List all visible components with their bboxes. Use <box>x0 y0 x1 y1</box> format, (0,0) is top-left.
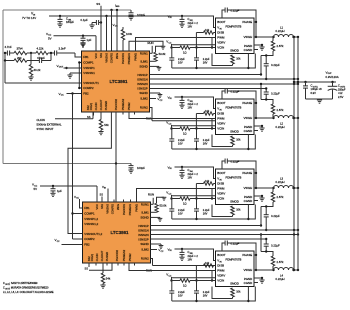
svg-text:FREQ: FREQ <box>89 103 93 110</box>
node VCC ILIM2 <box>150 97 164 102</box>
svg-text:VSWH: VSWH <box>244 186 253 190</box>
wire VSNSOUT1 <box>5 82 82 84</box>
svg-text:5V: 5V <box>34 187 38 191</box>
svg-text:SS1: SS1 <box>100 203 104 208</box>
wire ISNS2N ic2 <box>151 233 300 235</box>
svg-text:PWM: PWM <box>217 269 225 273</box>
svg-text:53.6k: 53.6k <box>160 204 167 208</box>
capacitor 0.1uF soft-start <box>81 18 103 28</box>
capacitor 1uF ic2 <box>50 185 62 197</box>
svg-text:22µF × 2: 22µF × 2 <box>188 102 199 106</box>
svg-text:PWM2: PWM2 <box>128 253 132 261</box>
svg-text:SS: SS <box>100 192 104 196</box>
svg-text:PHASE: PHASE <box>242 20 252 24</box>
svg-text:VSNSN1,2: VSNSN1,2 <box>84 222 98 226</box>
svg-text:PHSMD: PHSMD <box>104 101 108 110</box>
node RUN2 <box>150 108 153 121</box>
resistor 40.2k <box>28 61 41 81</box>
svg-text:SMOD: SMOD <box>230 200 239 204</box>
svg-text:VSNSOUT1: VSNSOUT1 <box>83 81 99 85</box>
svg-text:16V: 16V <box>203 141 208 145</box>
node VIN ic2 top <box>102 185 108 202</box>
svg-text:2.2µF: 2.2µF <box>178 57 185 61</box>
svg-text:ILIM2: ILIM2 <box>140 97 148 101</box>
svg-text:VCIN: VCIN <box>217 279 224 283</box>
svg-text:CC: CC <box>61 95 65 97</box>
node VCC 5V <box>46 32 52 41</box>
wire SS ic2 <box>40 186 103 202</box>
wire ISNS1N <box>150 78 300 80</box>
svg-text:DISB: DISB <box>217 182 224 186</box>
svg-text:ILIM2: ILIM2 <box>141 248 149 252</box>
ground SGND2 ic2 <box>151 244 164 248</box>
node RUN2 ic2 <box>151 259 153 266</box>
svg-text:SS1: SS1 <box>99 52 103 57</box>
resistor 53.6k ilim1 ic2 <box>151 197 167 212</box>
svg-text:2.2µF: 2.2µF <box>178 208 185 212</box>
svg-text:0.22µF: 0.22µF <box>271 92 280 96</box>
wire ISNS1P ic2 <box>151 225 262 227</box>
resistor 20k <box>5 56 31 62</box>
svg-text:BOOT: BOOT <box>217 101 225 105</box>
wire PWM2 route <box>129 112 216 119</box>
svg-text:16V: 16V <box>188 24 193 28</box>
svg-text:1Ω: 1Ω <box>183 50 186 54</box>
svg-text:1Ω: 1Ω <box>183 131 186 135</box>
svg-text:PWMEN1: PWMEN1 <box>127 52 131 64</box>
op-amp U1 LTC3861 <box>82 51 150 112</box>
svg-text:VSWH: VSWH <box>244 116 253 120</box>
ground pgnd1 <box>254 44 265 50</box>
svg-text:180µF: 180µF <box>66 20 74 24</box>
node SS2 ic2 <box>85 263 90 270</box>
svg-text:CLKIN: CLKIN <box>95 253 99 261</box>
node VIN <box>22 12 36 20</box>
svg-text:RUN: RUN <box>148 193 154 197</box>
node RUN1 ic2 <box>148 193 154 205</box>
svg-text:2.87k: 2.87k <box>277 195 284 199</box>
node SS top <box>96 2 101 51</box>
svg-text:VDRV: VDRV <box>217 41 225 45</box>
svg-text:COMP2: COMP2 <box>84 237 95 241</box>
svg-text:SGND: SGND <box>140 216 148 220</box>
svg-text:DISB: DISB <box>217 31 224 35</box>
resistor 1ohm vcc2 <box>166 119 255 151</box>
svg-text:CGND: CGND <box>244 129 253 133</box>
svg-text:54k: 54k <box>106 276 111 280</box>
svg-text:VSNSP1,2: VSNSP1,2 <box>84 217 98 221</box>
resistor 54k ic2 <box>100 263 111 288</box>
svg-text:SYNC INPUT: SYNC INPUT <box>37 127 54 131</box>
capacitor 1uF <box>80 35 91 47</box>
wire ISNS2P ic2 <box>151 238 267 240</box>
svg-text:16V: 16V <box>203 293 208 297</box>
svg-text:16V: 16V <box>178 141 183 145</box>
svg-text:VCC: VCC <box>95 204 99 210</box>
capacitor boot1 0.22uF <box>222 8 257 39</box>
wire VCC rail <box>54 36 97 51</box>
wire ISNS2P <box>150 88 267 90</box>
power stage U4 FDMF6707B ph3 <box>216 169 255 205</box>
power stage U2 FDMF6707B ph1 <box>216 18 255 54</box>
node VOUT sense <box>57 64 82 69</box>
svg-text:10k: 10k <box>205 179 210 183</box>
svg-text:SS: SS <box>96 2 100 6</box>
svg-text:RUN2: RUN2 <box>141 257 149 261</box>
wire vout rail A <box>293 37 295 271</box>
svg-text:CC: CC <box>115 26 119 28</box>
svg-text:SS: SS <box>87 115 91 119</box>
wire ISNS1P <box>150 74 262 76</box>
inductor L1 <box>254 26 299 81</box>
svg-text:100k: 100k <box>126 32 133 36</box>
svg-text:0.22µF: 0.22µF <box>271 63 280 67</box>
resistor 37k4 <box>14 47 27 55</box>
svg-text:PHASE: PHASE <box>242 101 252 105</box>
resistor 1ohm vcc4 <box>166 271 255 303</box>
svg-text:6.3V: 6.3V <box>311 91 317 95</box>
wire CONFIG <box>110 9 112 51</box>
node VCC ILIM2 ic2 <box>151 248 165 253</box>
capacitor 4.7nF <box>5 45 15 56</box>
svg-text:BOOT: BOOT <box>217 253 225 257</box>
svg-text:40.2k: 40.2k <box>34 68 41 72</box>
svg-text:VCIN: VCIN <box>217 46 224 50</box>
node IAVG top <box>115 4 120 9</box>
resistor 53.6k ilim1 <box>150 46 167 61</box>
svg-text:0.22µF: 0.22µF <box>231 89 240 93</box>
svg-text:VSNSP1: VSNSP1 <box>83 66 95 70</box>
svg-text:470pF: 470pF <box>37 56 45 60</box>
wire PWM1 route ic2 <box>137 189 216 203</box>
node VOUT <box>326 71 339 79</box>
wire COMP tie <box>78 61 81 89</box>
svg-text:VCIN: VCIN <box>217 197 224 201</box>
wire ISNS2N <box>150 83 300 85</box>
svg-text:VDRV: VDRV <box>217 122 225 126</box>
svg-text:0.22µH: 0.22µH <box>276 277 285 281</box>
svg-text:2.2µF: 2.2µF <box>178 138 185 142</box>
svg-text:54k: 54k <box>104 123 109 127</box>
svg-text:PWM: PWM <box>217 187 225 191</box>
svg-text:10k: 10k <box>236 208 241 212</box>
svg-text:IAVG: IAVG <box>116 204 120 210</box>
svg-text:3.3nF: 3.3nF <box>59 47 66 51</box>
svg-text:FB2: FB2 <box>83 92 89 96</box>
svg-text:PWM2: PWM2 <box>127 102 131 110</box>
svg-text:PHASE: PHASE <box>242 253 252 257</box>
note inductors <box>3 291 54 294</box>
svg-text:CONFIG: CONFIG <box>110 53 114 63</box>
svg-text:2.2µF: 2.2µF <box>203 290 210 294</box>
svg-text:2.2µF: 2.2µF <box>203 138 210 142</box>
svg-text:PGOOD2: PGOOD2 <box>115 250 119 262</box>
wire vout rail B <box>297 37 299 271</box>
svg-text:22µF × 2: 22µF × 2 <box>188 254 199 258</box>
resistor 54k freq <box>98 112 109 135</box>
capacitor 470pF <box>31 52 52 63</box>
capacitor CIN1 <box>57 15 74 27</box>
wire IAVG bus bottom <box>3 163 131 165</box>
svg-text:2.87k: 2.87k <box>277 260 284 264</box>
node VCC FB2 ic2 <box>55 238 83 244</box>
svg-text:BOOT: BOOT <box>217 20 225 24</box>
wire VINSNS <box>105 15 107 51</box>
svg-text:PGOOD1: PGOOD1 <box>122 203 126 215</box>
svg-text:PHSMD: PHSMD <box>105 252 109 261</box>
svg-text:VCIN: VCIN <box>217 127 224 131</box>
svg-text:RUN1: RUN1 <box>141 202 149 206</box>
ground VSNS top <box>80 44 85 48</box>
op-amp U6 LTC3861 second <box>83 202 151 263</box>
wire cout gnd rail <box>306 99 333 103</box>
svg-text:20k: 20k <box>17 56 22 60</box>
svg-text:22µF × 2: 22µF × 2 <box>188 21 199 25</box>
svg-text:VSNSN1: VSNSN1 <box>83 71 95 75</box>
ground pgnd3 <box>254 195 265 201</box>
svg-text:SGND: SGND <box>140 242 148 246</box>
svg-text:PWMEN2: PWMEN2 <box>121 98 125 110</box>
svg-text:500kHz EXTERNAL: 500kHz EXTERNAL <box>37 122 62 126</box>
svg-text:0.22µF: 0.22µF <box>271 244 280 248</box>
svg-text:2.87k: 2.87k <box>277 108 284 112</box>
wire IAVG bus left <box>2 10 4 164</box>
svg-text:PWM: PWM <box>217 117 225 121</box>
wire fb left rail <box>4 52 6 83</box>
svg-text:FREQ: FREQ <box>90 254 94 261</box>
svg-text:10k: 10k <box>236 57 241 61</box>
svg-text:16V: 16V <box>188 257 193 261</box>
svg-text:2.2µF: 2.2µF <box>203 57 210 61</box>
svg-text:ILIM1: ILIM1 <box>141 211 149 215</box>
svg-text:FB2: FB2 <box>84 243 90 247</box>
svg-text:10k: 10k <box>205 261 210 265</box>
svg-text:SMOD: SMOD <box>230 130 239 134</box>
svg-text:CONFIG: CONFIG <box>111 204 115 214</box>
svg-text:0.22µH: 0.22µH <box>276 180 285 184</box>
svg-text:COMP1: COMP1 <box>84 212 95 216</box>
capacitor 3.3nF <box>55 47 76 56</box>
resistor 100k pgood <box>113 23 133 51</box>
svg-text:VINSNS: VINSNS <box>106 204 110 214</box>
svg-text:PWMEN2: PWMEN2 <box>122 249 126 261</box>
inductor L4 <box>254 233 299 281</box>
resistor smod4 10k <box>212 287 241 299</box>
resistor smod1 10k <box>212 54 241 66</box>
note cout1 <box>3 287 49 291</box>
resistor 1ohm vcc1 <box>166 38 255 70</box>
svg-text:ISNS1P: ISNS1P <box>137 73 147 77</box>
wire IAVG drop IC1 <box>116 9 118 51</box>
svg-text:53.6k: 53.6k <box>159 52 166 56</box>
svg-text:SMOD: SMOD <box>230 49 239 53</box>
svg-text:FB1: FB1 <box>84 206 90 210</box>
svg-text:ISNS1P: ISNS1P <box>138 224 148 228</box>
svg-text:2.2µF: 2.2µF <box>203 208 210 212</box>
wire VSNSN1 <box>67 73 81 78</box>
svg-text:SMOD: SMOD <box>230 282 239 286</box>
svg-text:SS: SS <box>85 266 89 270</box>
wire comp bus ic2 <box>71 94 82 240</box>
svg-text:CGND: CGND <box>244 199 253 203</box>
svg-text:0.22µF: 0.22µF <box>271 214 280 218</box>
svg-text:22µF × 2: 22µF × 2 <box>188 172 199 176</box>
note cout2 <box>3 282 38 286</box>
wire clkin <box>55 112 93 119</box>
power stage U5 FDMF6707B ph4 <box>216 251 255 287</box>
svg-text:IAVG: IAVG <box>115 53 119 59</box>
svg-text:100pF: 100pF <box>137 13 145 17</box>
svg-text:FDMF6707B: FDMF6707B <box>226 106 242 110</box>
power stage U3 FDMF6707B ph2 <box>216 99 255 135</box>
svg-text:DISB: DISB <box>217 264 224 268</box>
svg-text:330µF: 330µF <box>338 87 346 91</box>
svg-text:VSNSOUT1,2: VSNSOUT1,2 <box>84 232 102 236</box>
node SS2 <box>87 112 94 119</box>
svg-text:ILIM1: ILIM1 <box>140 60 148 64</box>
svg-text:ISNS2N: ISNS2N <box>137 82 147 86</box>
wire pin stubs ic1 <box>123 112 135 115</box>
svg-text:COMP2: COMP2 <box>83 86 94 90</box>
svg-text:CLKIN: CLKIN <box>94 102 98 110</box>
svg-text:: MURATA GRM32ER60J107ME20: : MURATA GRM32ER60J107ME20 <box>10 287 50 290</box>
svg-text:16V: 16V <box>178 293 183 297</box>
svg-text:: SANYO 2R5TPE330M9: : SANYO 2R5TPE330M9 <box>10 282 39 285</box>
resistor 1ohm vcc3 <box>166 189 255 221</box>
capacitor 100pF bottom <box>128 164 145 174</box>
resistor smod2 10k <box>212 135 241 147</box>
svg-text:LTC3861: LTC3861 <box>110 79 129 84</box>
svg-text:PWM: PWM <box>217 36 225 40</box>
svg-text:0.22µF: 0.22µF <box>231 8 240 12</box>
svg-text:PWMEN1: PWMEN1 <box>128 203 132 215</box>
wire IAVG drop ic2 <box>115 164 117 203</box>
svg-text:BOOT: BOOT <box>217 171 225 175</box>
svg-text:PHASE: PHASE <box>242 171 252 175</box>
capacitor boot2 0.22uF <box>222 89 257 120</box>
resistor 4.22k <box>27 47 54 55</box>
svg-text:16V: 16V <box>188 105 193 109</box>
wire PWM2 route ic2 <box>129 263 216 271</box>
wire RUN block4 <box>146 266 216 273</box>
svg-text:RUN2: RUN2 <box>140 106 148 110</box>
wire pin stubs ic2 <box>96 200 135 266</box>
svg-text:FDMF6707B: FDMF6707B <box>226 176 242 180</box>
capacitor CIN4 cluster <box>168 165 216 198</box>
wire PWMEN1 gnd <box>129 41 163 51</box>
svg-text:COMP1: COMP1 <box>83 61 94 65</box>
wire vout horiz <box>293 81 336 83</box>
node VCC ic2 top <box>74 195 83 208</box>
svg-text:1Ω: 1Ω <box>183 283 186 287</box>
svg-text:2.2µF: 2.2µF <box>178 290 185 294</box>
svg-text:VSWH: VSWH <box>244 35 253 39</box>
svg-text:SGND: SGND <box>139 65 147 69</box>
svg-text:PGOOD1: PGOOD1 <box>121 52 125 64</box>
capacitor boot4 0.22uF <box>222 241 257 272</box>
svg-text:DISB: DISB <box>217 112 224 116</box>
wire RUN block2 <box>146 116 216 120</box>
svg-text:VINSNS: VINSNS <box>105 53 109 63</box>
svg-text:VSWH: VSWH <box>244 268 253 272</box>
ground pgnd2 <box>254 125 265 131</box>
svg-text:OUT: OUT <box>59 67 64 69</box>
svg-text:ISNS1N: ISNS1N <box>138 229 148 233</box>
resistor smod3 10k <box>212 205 241 217</box>
svg-text:FDMF6707B: FDMF6707B <box>226 25 242 29</box>
svg-text:100µF ×8: 100µF ×8 <box>311 87 323 91</box>
svg-text:10k: 10k <box>205 109 210 113</box>
capacitor CIN5 cluster <box>168 247 216 280</box>
ground pgnd4 <box>254 277 265 283</box>
svg-text:VDRV: VDRV <box>217 274 225 278</box>
svg-text:0.1µF: 0.1µF <box>81 18 88 22</box>
wire PWM1 route <box>136 38 216 52</box>
svg-text:16V: 16V <box>178 60 183 64</box>
svg-text:L1, L2, L3, L4: COILCRAFT XAL1: L1, L2, L3, L4: COILCRAFT XAL1010-221ME <box>3 291 54 294</box>
svg-text:1Ω: 1Ω <box>183 201 186 205</box>
svg-text:ISNS1N: ISNS1N <box>137 78 147 82</box>
node VCC FB2 <box>59 92 82 97</box>
wire IAVG bus top <box>3 9 131 11</box>
svg-text:16V: 16V <box>178 211 183 215</box>
node CLKIN input <box>37 118 62 131</box>
svg-text:ISNS2P: ISNS2P <box>137 87 147 91</box>
svg-text:0.9V/120A: 0.9V/120A <box>326 75 339 79</box>
svg-text:PWM1: PWM1 <box>135 203 139 211</box>
svg-text:RUN1: RUN1 <box>140 51 148 55</box>
inductor L3 <box>254 177 299 232</box>
svg-text:VDRV: VDRV <box>217 192 225 196</box>
svg-text:ISNS2P: ISNS2P <box>138 238 148 242</box>
ground SGND1 ic2 <box>151 217 163 221</box>
svg-text:2.5V: 2.5V <box>338 95 344 99</box>
svg-text:10k: 10k <box>236 290 241 294</box>
node RUN1 <box>148 41 154 54</box>
capacitor 100pF top <box>128 10 145 20</box>
inductor L2 <box>254 83 299 129</box>
ground SGND2 <box>150 93 163 97</box>
svg-text:CLKOUT: CLKOUT <box>100 250 104 261</box>
ground SGND1 <box>150 66 162 70</box>
svg-text:0.22µH: 0.22µH <box>276 125 285 129</box>
svg-text:4.7nF: 4.7nF <box>5 45 12 49</box>
svg-text:0.22µF: 0.22µF <box>231 159 240 163</box>
wire VIN rail <box>49 15 214 17</box>
svg-text:CLKOUT: CLKOUT <box>99 99 103 110</box>
svg-text:VCC: VCC <box>94 53 98 59</box>
svg-text:FB1: FB1 <box>83 55 89 59</box>
wire to FB1 <box>75 53 82 57</box>
svg-text:1µF: 1µF <box>57 189 62 193</box>
node VCC5V ic2 <box>32 182 38 190</box>
svg-text:10k: 10k <box>205 28 210 32</box>
capacitor COUT2 <box>328 81 346 99</box>
svg-text:16V: 16V <box>188 175 193 179</box>
wire fb bus ic2 <box>68 112 111 234</box>
svg-text:4.22k: 4.22k <box>37 47 44 51</box>
capacitor boot3 0.22uF <box>222 159 257 190</box>
svg-text:16V: 16V <box>203 211 208 215</box>
wire phsmd ic2 <box>89 263 112 270</box>
svg-text:CLKIN: CLKIN <box>37 118 45 122</box>
svg-text:10k: 10k <box>236 138 241 142</box>
capacitor CIN3 cluster <box>168 95 216 128</box>
svg-text:PGOOD2: PGOOD2 <box>114 99 118 111</box>
svg-text:ISNS2N: ISNS2N <box>138 233 148 237</box>
svg-text:5V: 5V <box>48 36 52 40</box>
svg-text:7V TO 14V: 7V TO 14V <box>22 16 36 20</box>
